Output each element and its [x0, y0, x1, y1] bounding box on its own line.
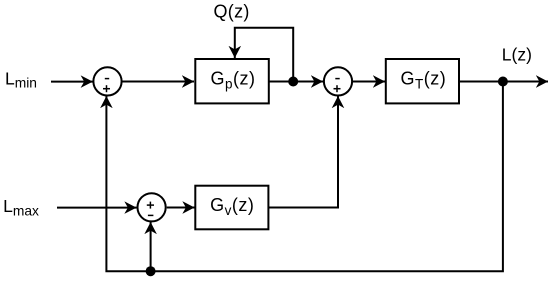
svg-text:Gv(z): Gv(z) [210, 195, 254, 218]
svg-text:GT(z): GT(z) [401, 69, 447, 92]
svg-text:Q(z): Q(z) [214, 1, 250, 21]
svg-text:Gp(z): Gp(z) [210, 69, 255, 92]
svg-text:Lmax: Lmax [3, 196, 39, 218]
svg-text:L(z): L(z) [502, 45, 532, 65]
svg-text:Lmin: Lmin [5, 69, 37, 91]
